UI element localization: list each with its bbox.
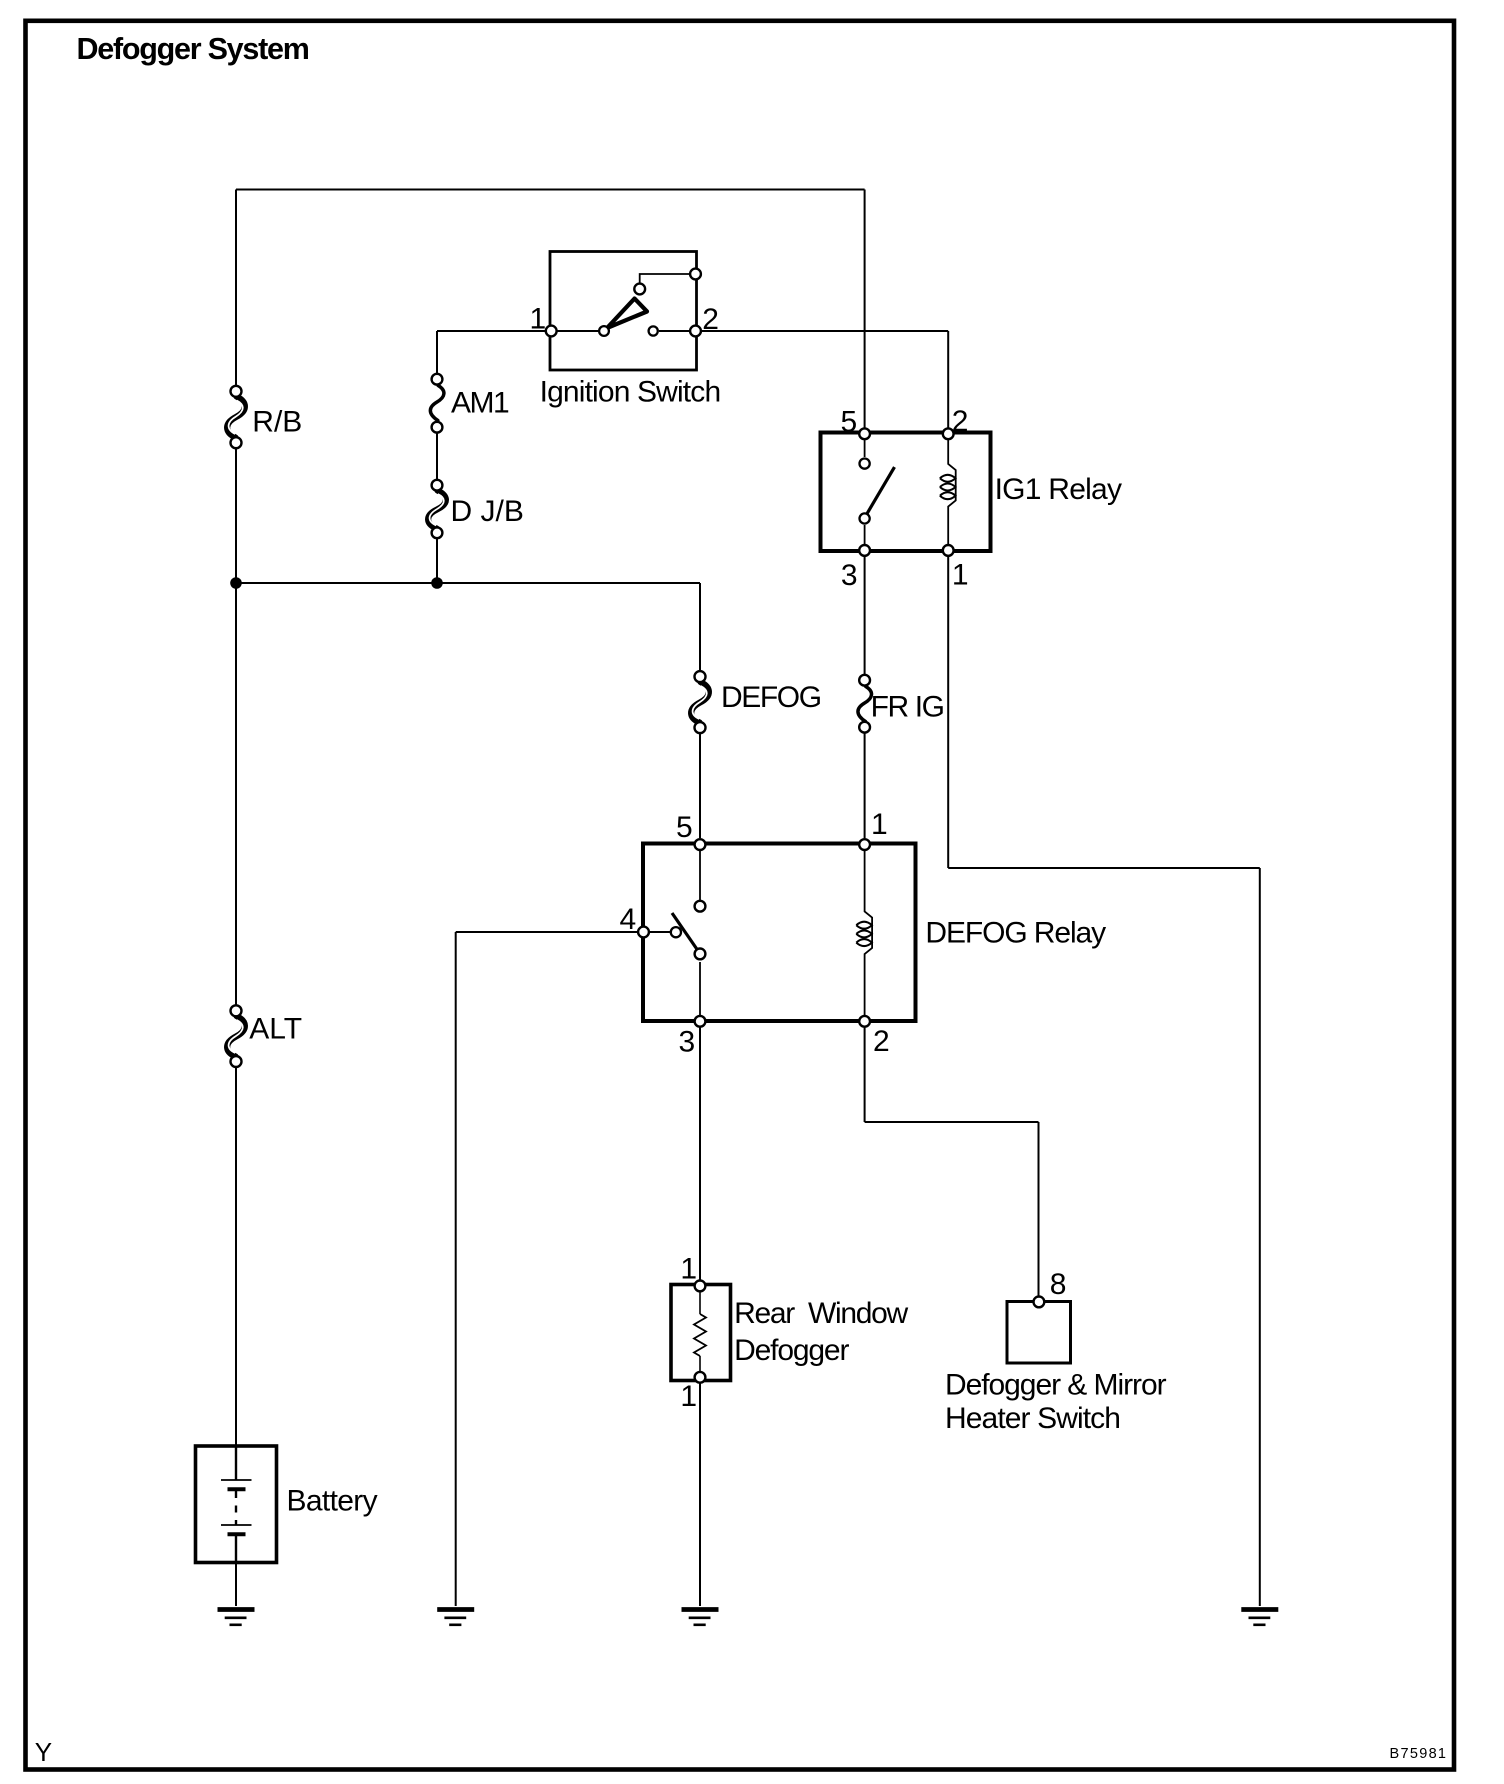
svg-text:D J/B: D J/B — [451, 495, 524, 528]
pin 1 — [546, 326, 557, 337]
svg-text:ALT: ALT — [249, 1013, 302, 1046]
IG1 relay — [821, 405, 1122, 592]
svg-text:1: 1 — [871, 808, 888, 841]
svg-text:1: 1 — [680, 1252, 697, 1285]
wire ignition pin1 to AM1 column — [437, 330, 545, 332]
wire DEFOG relay pin4 to contact — [644, 931, 670, 933]
svg-text:Heater Switch: Heater Switch — [945, 1402, 1120, 1435]
DEFOG relay pin 4 — [638, 927, 649, 938]
wire ALT to battery — [235, 1067, 237, 1446]
svg-text:DEFOG Relay: DEFOG Relay — [925, 916, 1106, 949]
DEFOG relay pin 5 — [695, 839, 706, 850]
wire IG1 pin1 drop — [947, 556, 949, 868]
ignition lever — [607, 299, 647, 329]
IG1 switch arm — [867, 467, 895, 515]
svg-text:Battery: Battery — [287, 1485, 378, 1518]
ground battery — [218, 1610, 255, 1625]
wire left column to R/B fuse — [235, 190, 237, 386]
fuse DEFOG — [691, 671, 821, 733]
IG1 pin 2 — [943, 428, 954, 439]
battery plate long top — [221, 1479, 252, 1481]
svg-text:Rear Window: Rear Window — [734, 1297, 908, 1330]
wire ignition internal top link — [640, 274, 689, 283]
svg-text:2: 2 — [952, 405, 969, 438]
wire R/B to junction A — [235, 449, 237, 584]
svg-text:Defogger System: Defogger System — [77, 32, 309, 66]
wire DEFOG relay pin2 drop — [864, 1027, 866, 1122]
DEFOG relay pin 1 — [859, 839, 870, 850]
switch pin 8 — [1034, 1297, 1045, 1308]
svg-text:IG1 Relay: IG1 Relay — [995, 473, 1122, 506]
ignition contact b — [649, 326, 658, 335]
ignition contact a — [599, 326, 609, 336]
wire D J/B to junction B — [436, 539, 438, 584]
wire IG1 pin5 to contact — [864, 434, 866, 457]
wire pin4 column to ground — [455, 932, 457, 1606]
svg-text:5: 5 — [841, 405, 858, 438]
fuse ALT — [227, 1005, 302, 1067]
svg-text:DEFOG: DEFOG — [721, 681, 821, 714]
svg-text:4: 4 — [620, 903, 637, 936]
DEFOG relay — [620, 808, 1107, 1058]
wire DEFOG relay pin5 to contact — [699, 845, 701, 900]
wire pin2 horizontal run — [865, 1121, 1039, 1123]
fuse R/B — [227, 386, 302, 448]
svg-text:B75981: B75981 — [1390, 1746, 1448, 1762]
DEFOG relay switch arm — [672, 913, 698, 950]
svg-text:Defogger: Defogger — [734, 1334, 849, 1367]
wire ignition pin2 to IG1 pin2 column — [702, 330, 948, 332]
svg-text:1: 1 — [952, 558, 969, 591]
wire DEFOG relay contact to pin3 — [699, 962, 701, 1020]
wire AM1 to D J/B — [436, 433, 438, 479]
svg-text:1: 1 — [680, 1380, 697, 1413]
wire ignition internal pin1 to contact — [551, 330, 598, 332]
svg-text:FR IG: FR IG — [871, 691, 944, 724]
resistor heating element — [694, 1314, 706, 1356]
wire IG1 pin3 to FR IG fuse — [864, 556, 866, 674]
ignition contact c — [634, 284, 645, 295]
IG1 contact top — [860, 459, 870, 469]
battery — [196, 1446, 378, 1563]
wire AM1 column top — [436, 331, 438, 373]
wire battery bottom lead — [235, 1536, 237, 1562]
wire junction bus to DEFOG fuse — [699, 583, 701, 670]
defogger pin 1 bottom — [695, 1372, 706, 1383]
wire horizontal junction bus — [236, 582, 700, 584]
svg-text:R/B: R/B — [252, 406, 302, 439]
wire to heater switch pin8 — [1038, 1122, 1040, 1298]
ground right — [1241, 1610, 1278, 1625]
defogger pin 1 top — [695, 1281, 706, 1292]
svg-text:AM1: AM1 — [451, 386, 509, 419]
IG1 pin 5 — [859, 428, 870, 439]
fuse FR IG — [858, 675, 944, 733]
wire DEFOG fuse to relay pin5 — [699, 734, 701, 838]
junction A — [230, 577, 242, 589]
wire battery top lead — [235, 1446, 237, 1480]
ground rear defogger — [682, 1610, 719, 1625]
svg-text:3: 3 — [841, 559, 858, 592]
fuse AM1 — [430, 374, 509, 433]
battery plate short top — [228, 1487, 246, 1491]
svg-text:Y: Y — [35, 1737, 52, 1767]
wire IG1 pin2 drop — [947, 331, 949, 428]
svg-text:Defogger & Mirror: Defogger & Mirror — [945, 1368, 1167, 1401]
DEFOG relay coil — [865, 845, 873, 1020]
IG1 contact bottom — [860, 513, 870, 523]
svg-text:1: 1 — [530, 303, 547, 336]
wire DEFOG relay pin4 run — [456, 931, 638, 933]
svg-text:2: 2 — [702, 303, 719, 336]
svg-text:Ignition Switch: Ignition Switch — [540, 375, 721, 408]
rear window defogger — [671, 1252, 909, 1413]
wire IG1 contact to pin3 — [864, 525, 866, 550]
svg-text:5: 5 — [676, 811, 693, 844]
DEFOG relay contact bottom — [695, 949, 706, 960]
svg-text:8: 8 — [1050, 1268, 1067, 1301]
battery plate long bottom — [221, 1524, 252, 1526]
wire defogger to ground — [699, 1382, 701, 1606]
wire ignition internal contact to pin2 — [659, 330, 695, 332]
IG1 pin 3 — [859, 545, 870, 556]
battery plate short bottom — [228, 1532, 246, 1536]
ignition contact d — [690, 269, 701, 280]
junction B — [431, 577, 443, 589]
IG1 pin 1 — [943, 545, 954, 556]
wire battery to ground — [235, 1561, 237, 1606]
svg-text:3: 3 — [679, 1025, 696, 1058]
wire top bus to IG1 pin5 — [864, 190, 866, 429]
IG1 coil — [948, 438, 956, 546]
svg-text:2: 2 — [873, 1025, 890, 1058]
wire defogger pin to resistor — [699, 1286, 701, 1314]
wire right column to ground — [1259, 868, 1261, 1606]
wire FR IG to DEFOG relay pin1 — [864, 733, 866, 838]
DEFOG relay pin 2 — [859, 1016, 870, 1027]
ignition switch SW1 — [530, 252, 721, 409]
wire DEFOG relay pin3 to defogger — [699, 1027, 701, 1280]
DEFOG relay contact mid — [671, 927, 681, 937]
fuse D J/B — [428, 480, 524, 538]
defogger and mirror heater switch — [945, 1268, 1167, 1435]
pin 2 — [690, 326, 701, 337]
wire top horizontal bus — [236, 189, 865, 191]
ground defog relay switch — [437, 1610, 474, 1625]
wire IG1 pin1 horizontal run — [948, 867, 1260, 869]
DEFOG relay pin 3 — [695, 1016, 706, 1027]
battery cell link dashed — [235, 1491, 237, 1525]
wire resistor to bottom pin — [699, 1356, 701, 1377]
DEFOG relay contact top — [695, 901, 706, 912]
wire junction A to ALT fuse — [235, 583, 237, 1005]
